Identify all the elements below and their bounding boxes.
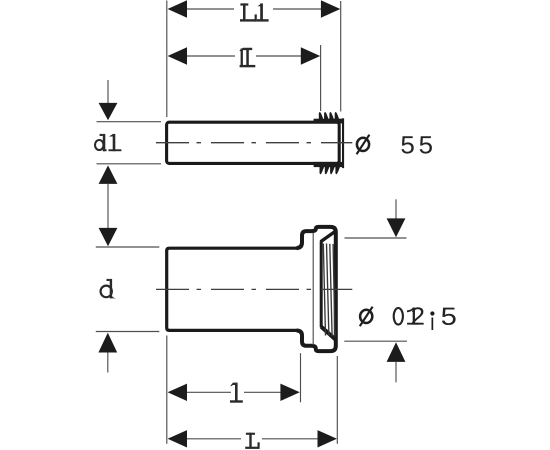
diameter lower arrowhead	[387, 342, 406, 362]
d extension tick bottom	[96, 331, 160, 333]
gasket rib 4	[333, 244, 335, 337]
diameter dim lower extension line	[344, 340, 407, 342]
label l1	[240, 48, 256, 68]
label diameter symbol for 55	[357, 135, 370, 155]
top pipe body outline	[167, 122, 340, 163]
diameter upper arrow stem	[395, 199, 397, 219]
label diameter symbol for 102.5	[360, 307, 373, 327]
d upper arrowhead (pointing down)	[99, 228, 118, 246]
label Ø 102.5 : comma glyph stem	[432, 318, 434, 331]
arrowhead l left	[168, 384, 187, 401]
socket inner wall	[320, 241, 323, 327]
extension line left (shared by l, L)	[166, 336, 168, 444]
dimension L line	[187, 438, 242, 440]
arrowhead L left	[168, 430, 187, 447]
label L1	[240, 3, 269, 21]
d lower arrowhead (pointing up)	[98, 333, 117, 353]
d1 extension tick top	[97, 121, 162, 123]
bottom pipe body outline	[167, 248, 298, 330]
top pipe end lip	[342, 118, 344, 168]
label Ø 102.5 : digit 5	[442, 308, 456, 325]
socket inner chamfer top	[321, 231, 336, 241]
d1 upper arrowhead	[99, 103, 118, 120]
label d	[101, 279, 117, 299]
d lower arrow stem	[107, 353, 109, 373]
d extension tick top	[96, 246, 160, 248]
stem between pipes	[107, 184, 109, 228]
arrowhead L1 left	[168, 0, 187, 17]
label Ø 102.5 : digit 2 (overlapping)	[412, 307, 424, 324]
label Ø 102.5 : comma glyph dot	[430, 311, 434, 315]
diameter dim upper extension line	[345, 237, 407, 239]
label Ø 55 : value	[401, 136, 432, 153]
centerline bottom pipe	[156, 288, 352, 290]
label Ø 102.5 : digit 0	[394, 308, 403, 325]
label L	[245, 433, 260, 449]
dimension l1 line	[187, 55, 236, 57]
top pipe thread band bottom	[314, 162, 343, 167]
gasket rib 1	[323, 244, 325, 336]
label Ø 102.5 : digit 1 (overlapping)	[407, 307, 419, 324]
extension line right of L1	[340, 1, 342, 112]
extension line right of L	[336, 356, 338, 444]
d1 upper arrow stem	[107, 80, 109, 104]
thread teeth bottom	[320, 166, 325, 174]
arrowhead l1 right	[301, 47, 320, 64]
extension line left (shared by L1, l1)	[166, 1, 168, 118]
arrowhead L1 right	[321, 0, 340, 17]
diameter lower arrow stem	[395, 362, 397, 382]
extension line right of l	[300, 353, 302, 402]
gasket rib 3	[330, 244, 332, 336]
diameter upper arrowhead	[387, 218, 406, 237]
extension line right of l1	[320, 45, 322, 111]
d1 lower arrowhead (pointing up)	[99, 165, 118, 184]
socket outer profile	[297, 227, 336, 351]
dimension l line	[187, 391, 232, 393]
label l	[230, 383, 243, 403]
d1 extension tick bottom	[97, 163, 162, 165]
thread teeth top	[319, 112, 324, 120]
socket inner chamfer bottom	[321, 327, 336, 340]
top pipe thread band top	[314, 119, 343, 124]
arrowhead l right	[280, 384, 299, 401]
label d1	[95, 134, 121, 151]
gasket rib 2	[327, 244, 329, 336]
centerline top pipe	[156, 142, 352, 144]
arrowhead L right	[318, 430, 337, 447]
arrowhead l1 left	[168, 47, 187, 64]
socket seam line	[312, 233, 314, 345]
dimension L1 line	[187, 8, 235, 10]
